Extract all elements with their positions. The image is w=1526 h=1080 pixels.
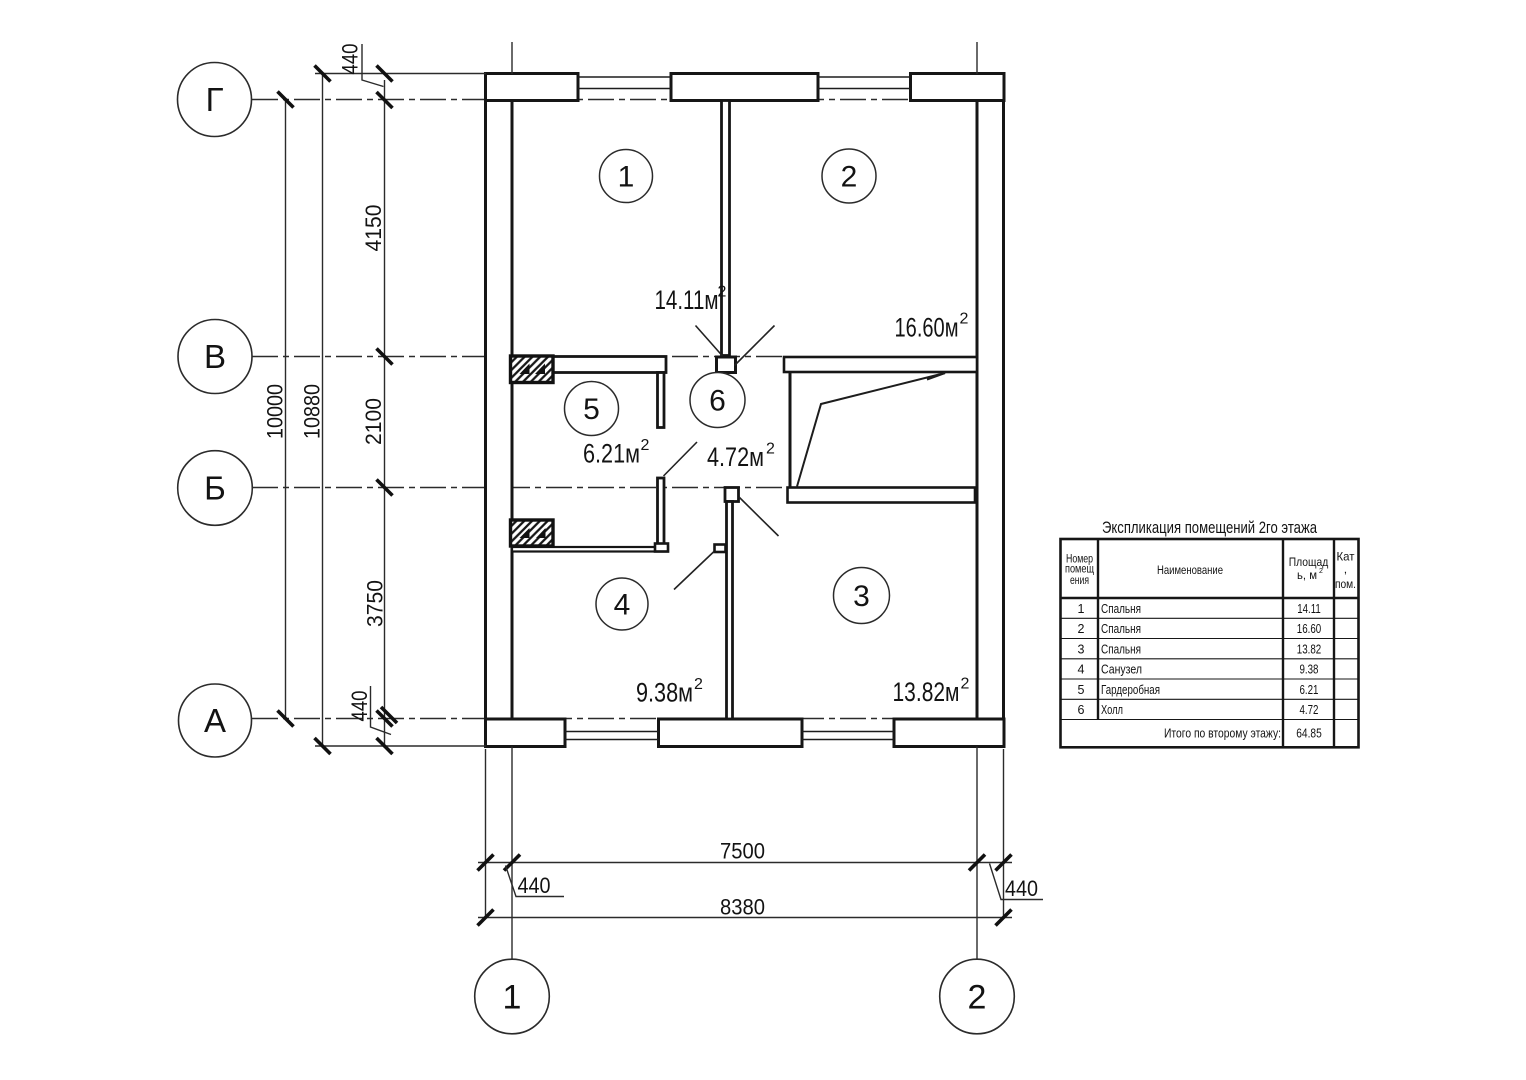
tick 384.5/487.5 xyxy=(377,480,393,496)
hall bottom wall xyxy=(512,547,668,552)
partition rooms 3-4 xyxy=(727,502,733,720)
svg-text:Санузел: Санузел xyxy=(1101,663,1142,677)
stair direction line xyxy=(797,373,945,487)
svg-text:4.72: 4.72 xyxy=(1300,703,1319,717)
leader 440 bottom axis2 xyxy=(990,864,1044,900)
room circle 6 xyxy=(690,373,745,428)
svg-text:440: 440 xyxy=(1005,876,1038,901)
wall bottom pier 1 xyxy=(486,719,566,747)
svg-text:2: 2 xyxy=(694,676,703,693)
svg-text:14.11м: 14.11м xyxy=(655,285,719,315)
svg-text:7500: 7500 xyxy=(720,839,765,864)
svg-text:5: 5 xyxy=(583,393,600,426)
svg-text:440: 440 xyxy=(518,873,551,898)
door swing room 2 xyxy=(735,326,775,366)
tick 285.5/718.5 xyxy=(278,711,294,727)
partition 5-6 upper xyxy=(658,373,665,428)
tick 322.5/746 xyxy=(315,738,331,754)
svg-text:4: 4 xyxy=(1078,663,1085,677)
svg-text:2: 2 xyxy=(641,437,650,454)
axis circle V xyxy=(178,320,252,394)
table col line 3 xyxy=(1333,539,1335,747)
svg-text:9.38м: 9.38м xyxy=(636,678,693,708)
svg-text:1: 1 xyxy=(618,161,635,194)
tick 322.5/73.5 xyxy=(315,66,331,82)
svg-text:3750: 3750 xyxy=(363,580,388,627)
svg-text:Б: Б xyxy=(204,470,226,507)
axis line G xyxy=(252,99,1004,101)
WALLS xyxy=(486,74,1005,747)
svg-text:Наименование: Наименование xyxy=(1157,563,1223,577)
axis circle B xyxy=(178,451,253,526)
svg-text:,: , xyxy=(1344,562,1347,576)
room circle 4 xyxy=(596,578,648,630)
dim line 10880 xyxy=(322,72,324,746)
tick 1003.5/862.5 xyxy=(996,855,1012,871)
wall left outer xyxy=(486,74,513,747)
svg-text:10000: 10000 xyxy=(263,384,288,439)
axis circle G xyxy=(178,63,252,137)
axis 2 extension bottom xyxy=(976,747,978,960)
wall top pier 1 xyxy=(486,74,579,101)
table col line 1 xyxy=(1097,539,1099,720)
svg-text:ения: ения xyxy=(1070,573,1089,587)
stair bottom wall band xyxy=(788,488,976,503)
axis circle 1 xyxy=(475,959,550,1034)
svg-text:2: 2 xyxy=(1078,622,1085,636)
svg-text:13.82: 13.82 xyxy=(1297,643,1322,657)
svg-text:6.21: 6.21 xyxy=(1300,683,1319,697)
wall bottom pier 3 xyxy=(894,719,1004,747)
stair left wall line xyxy=(789,373,792,488)
svg-text:6.21м: 6.21м xyxy=(583,439,640,469)
tick 384.5/73.5 xyxy=(377,66,393,82)
svg-text:4.72м: 4.72м xyxy=(707,442,764,472)
svg-text:2: 2 xyxy=(766,441,775,458)
svg-text:Площад: Площад xyxy=(1289,555,1329,569)
AREA LABELS xyxy=(583,284,970,708)
window bottom 1 xyxy=(565,731,659,733)
svg-text:4: 4 xyxy=(614,589,631,622)
table row lines xyxy=(1061,617,1359,619)
svg-text:2: 2 xyxy=(1319,568,1323,575)
tick 384.5/746 xyxy=(377,738,393,754)
DIMENSION TICKS xyxy=(278,66,1012,926)
room circle 5 xyxy=(565,382,619,436)
wall top pier 2 xyxy=(671,74,818,101)
tick 384.5/100 xyxy=(377,92,393,108)
svg-text:Холл: Холл xyxy=(1101,703,1123,717)
svg-text:Спальня: Спальня xyxy=(1101,643,1141,657)
table footer line xyxy=(1061,719,1359,721)
svg-text:пом.: пом. xyxy=(1335,577,1356,591)
axis 1 extension bottom xyxy=(511,747,513,960)
svg-text:2: 2 xyxy=(841,161,858,194)
svg-text:14.11: 14.11 xyxy=(1297,602,1321,616)
leader 440 bottom axis1 xyxy=(506,866,565,897)
svg-text:Итого по второму этажу:: Итого по второму этажу: xyxy=(1164,726,1281,740)
door swing room 4 xyxy=(674,552,714,590)
dim line 10000 xyxy=(285,100,287,719)
outer face left extension bottom xyxy=(485,749,487,918)
table header texts xyxy=(1065,550,1356,592)
svg-text:В: В xyxy=(204,338,226,375)
svg-text:3: 3 xyxy=(1078,643,1085,657)
room circle 1 xyxy=(600,150,653,203)
outer face right extension bottom xyxy=(1003,749,1005,918)
partition rooms 1-2 xyxy=(722,101,730,356)
tick 977/862.5 xyxy=(969,855,985,871)
AXIS CIRCLES xyxy=(178,63,1015,1034)
svg-text:64.85: 64.85 xyxy=(1296,726,1322,740)
tick 384.5/356.5 xyxy=(377,349,393,365)
vent block 2 xyxy=(511,520,554,546)
svg-text:16.60: 16.60 xyxy=(1297,622,1322,636)
tick double 384.5/718.5 xyxy=(377,711,393,727)
table col line 2 xyxy=(1282,539,1284,747)
svg-text:Спальня: Спальня xyxy=(1101,602,1141,616)
table outer border xyxy=(1061,539,1359,747)
axis circle A xyxy=(179,684,252,757)
svg-text:440: 440 xyxy=(338,44,363,75)
svg-text:А: А xyxy=(204,702,226,739)
axis 1 extension top xyxy=(511,42,513,74)
svg-text:1: 1 xyxy=(503,979,522,1017)
wall bottom pier 2 xyxy=(659,719,803,747)
bottom face extension left xyxy=(315,745,486,747)
axis line A xyxy=(252,718,1004,720)
window bottom 2 xyxy=(802,731,894,733)
wall right outer xyxy=(977,74,1004,747)
window top 2 xyxy=(818,76,911,78)
tick 485.5/862.5 xyxy=(478,855,494,871)
svg-text:Гардеробная: Гардеробная xyxy=(1101,683,1160,697)
wall top pier 3 xyxy=(911,74,1005,101)
svg-text:Спальня: Спальня xyxy=(1101,622,1141,636)
svg-text:8380: 8380 xyxy=(720,895,765,920)
stair top wall band xyxy=(784,357,977,372)
tick 485.5/917.5 xyxy=(478,910,494,926)
partition 5-6 lower xyxy=(658,478,665,547)
tick 285.5/99.5 xyxy=(278,92,294,108)
axis line V xyxy=(252,356,786,358)
svg-text:2: 2 xyxy=(718,284,727,301)
svg-text:2: 2 xyxy=(961,676,970,693)
svg-text:16.60м: 16.60м xyxy=(895,313,959,343)
door swing room 1 xyxy=(696,326,723,357)
DOOR SWINGS xyxy=(664,326,779,590)
wall rooms 1-5 xyxy=(512,357,666,373)
dim line 8380 xyxy=(478,917,1012,919)
room circle 2 xyxy=(822,149,876,203)
table header line xyxy=(1061,597,1359,600)
ROOM CIRCLES xyxy=(565,149,890,630)
axis 2 extension top xyxy=(976,42,978,74)
svg-text:Экспликация помещений 2го этаж: Экспликация помещений 2го этажа xyxy=(1102,519,1318,537)
svg-text:6: 6 xyxy=(1078,703,1085,717)
door swing room 3 xyxy=(739,497,779,536)
door swing room 5 xyxy=(664,442,698,476)
EXTENSION LINES xyxy=(286,42,1013,959)
dim line 440-4150-2100-3750-440 xyxy=(384,80,386,748)
leader 440 top-left xyxy=(362,44,384,87)
door post room 4 xyxy=(715,545,726,553)
svg-text:ь, м: ь, м xyxy=(1297,568,1317,582)
svg-text:1: 1 xyxy=(1078,602,1085,616)
axis circle 2 xyxy=(940,959,1015,1034)
svg-text:Г: Г xyxy=(206,81,224,118)
tick 1003.5/917.5 xyxy=(996,910,1012,926)
axis line B xyxy=(252,487,790,489)
svg-text:440: 440 xyxy=(347,691,372,722)
svg-text:5: 5 xyxy=(1078,683,1085,697)
hall bottom wall end cap xyxy=(655,544,668,552)
stair arrow barb xyxy=(927,373,945,380)
AXIS LINES dash-dot xyxy=(252,100,1004,719)
door post square rooms 3-4 xyxy=(725,488,739,502)
room circle 3 xyxy=(834,568,890,624)
440 LEADERS xyxy=(362,44,1043,900)
window top 1 xyxy=(578,76,671,78)
vent block 1 xyxy=(511,356,554,383)
table rows xyxy=(1078,602,1322,740)
dim line 7500 xyxy=(478,862,1012,864)
WINDOWS xyxy=(565,77,911,740)
svg-text:9.38: 9.38 xyxy=(1300,663,1319,677)
leader 440 bottom-left xyxy=(371,686,392,735)
svg-text:2: 2 xyxy=(960,311,969,328)
door post square center xyxy=(717,357,736,373)
top face extension left xyxy=(315,73,486,75)
svg-text:13.82м: 13.82м xyxy=(893,677,960,707)
DIMENSION TEXTS xyxy=(263,44,1039,920)
svg-text:2: 2 xyxy=(968,979,987,1017)
svg-text:6: 6 xyxy=(709,385,726,418)
svg-text:10880: 10880 xyxy=(300,384,325,439)
svg-text:2100: 2100 xyxy=(361,398,386,445)
tick 512/862.5 xyxy=(504,855,520,871)
svg-text:4150: 4150 xyxy=(361,205,386,252)
svg-text:3: 3 xyxy=(853,580,870,613)
